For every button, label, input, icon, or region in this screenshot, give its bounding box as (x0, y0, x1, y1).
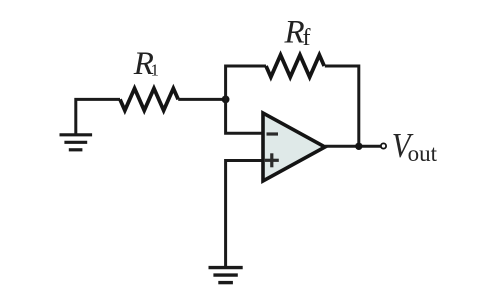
pin label: non-inverting input (plus) (265, 153, 279, 167)
resistor R1 (120, 88, 178, 110)
wire: left ground stem and lead to R1 (76, 99, 120, 135)
resistor Rf (266, 55, 324, 77)
output terminal (open circle) (381, 143, 386, 148)
wire: node A up to feedback branch (226, 66, 266, 99)
pin label: inverting input (minus) (267, 132, 279, 135)
svg-text:out: out (408, 141, 438, 166)
svg-text:f: f (303, 25, 311, 51)
node B (junction dot at output/feedback) (355, 143, 362, 150)
wire: node A down to inverting input (226, 99, 262, 133)
svg-text:R: R (284, 15, 305, 51)
op-amp U1 (triangle body) (263, 113, 325, 181)
ground (bottom, at non-inverting input) (209, 268, 243, 283)
ground (left, at R1 input) (60, 135, 93, 150)
wire: non-inverting input to bottom ground (226, 161, 262, 267)
wire: R1 to node A (178, 98, 225, 101)
wire: Rf to output node (325, 66, 359, 146)
node A (junction dot at inverting input net) (222, 96, 230, 104)
wire: op-amp output to terminal (325, 145, 381, 148)
svg-text:1: 1 (151, 61, 160, 80)
